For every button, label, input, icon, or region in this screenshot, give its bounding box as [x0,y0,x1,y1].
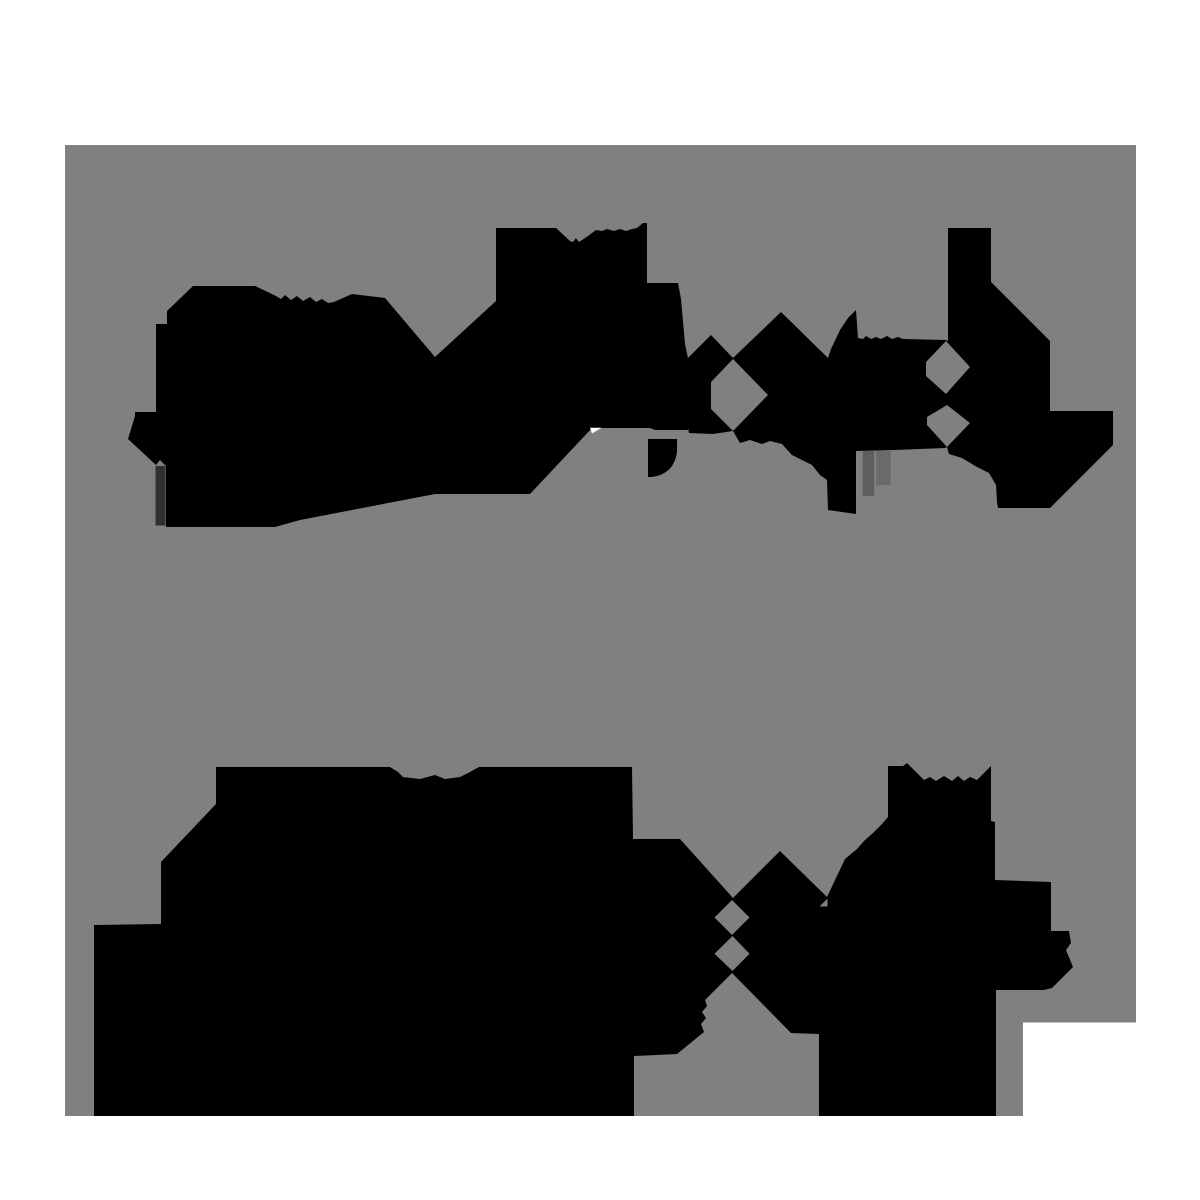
op-amp U2 + transformer T1 mass (bottom circuit) [94,763,1073,1116]
white notch at wedge tip [590,428,602,434]
resistor R1 zigzag hole 2 [927,405,970,447]
op-amp U1 silhouette (left blob of top circuit) [128,223,688,527]
junction notch triangle [820,899,828,907]
resistor R1 zigzag hole 1 [926,341,970,394]
ground stub (dark bar, left) [156,466,166,526]
node hole (pentagon) of crossing X1 [711,359,768,431]
resistor R2 zigzag hole 2 [715,936,750,971]
resistor R2 zigzag hole 1 [715,900,750,935]
schematic canvas background [65,145,1136,1116]
house-shaped node hole under X2 [634,973,819,1116]
wire bus + diodes D1,D2 + resistor R1 mass (right part of top circuit) [688,228,1113,514]
capacitor C1 foot silhouette [648,439,677,477]
wire stubs (dark bars, middle) [863,451,875,496]
